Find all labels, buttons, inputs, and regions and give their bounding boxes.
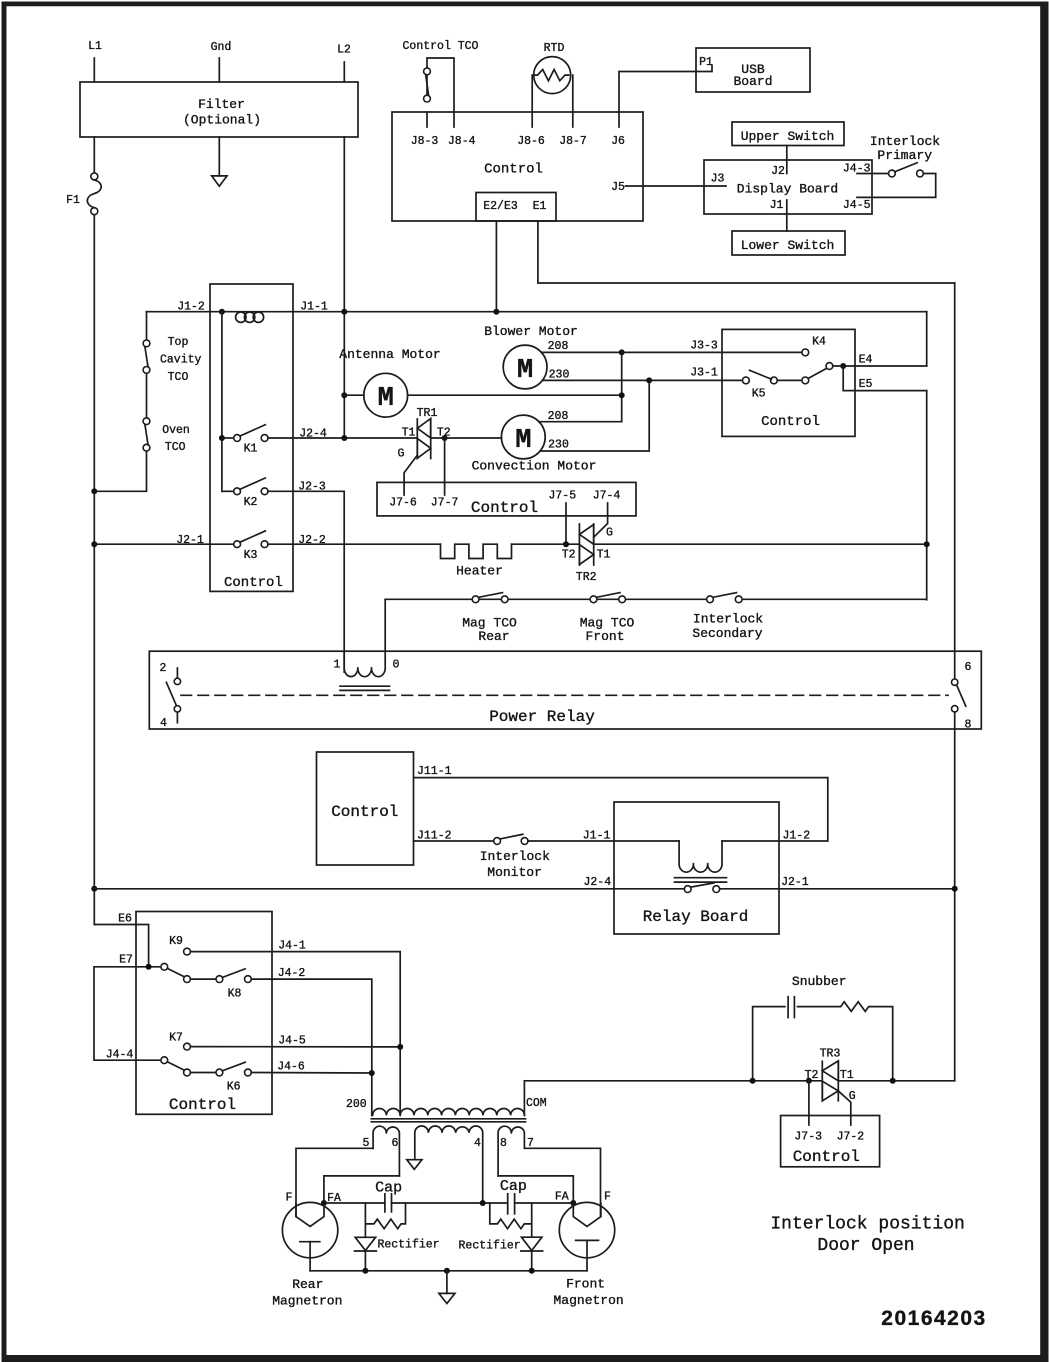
wire mag TCO rail xyxy=(385,598,927,600)
junction snubber right xyxy=(890,1078,896,1084)
svg-text:G: G xyxy=(606,527,613,540)
switch K5 xyxy=(743,363,833,401)
pin J8-7 xyxy=(559,112,587,148)
wire TR1 T2 to convection xyxy=(431,437,501,439)
junction 208col antenna xyxy=(619,392,625,398)
node J3-3 xyxy=(690,340,718,353)
svg-text:J1-1: J1-1 xyxy=(300,301,328,314)
node J2-1 relay board xyxy=(781,876,809,889)
svg-text:Oven: Oven xyxy=(162,424,190,437)
svg-text:TCO: TCO xyxy=(168,371,189,384)
svg-text:Primary: Primary xyxy=(877,148,932,163)
junction TR1 T2 / J7-7 xyxy=(442,435,448,441)
svg-text:Display Board: Display Board xyxy=(737,182,838,197)
wire blower 208 to J3-3 junction xyxy=(541,351,621,353)
switch K1 xyxy=(222,425,268,456)
wire pin7 to front F xyxy=(524,1148,600,1216)
svg-text:F1: F1 xyxy=(66,194,80,207)
wire J7-7 to control xyxy=(444,438,446,495)
snubber network xyxy=(753,974,893,1081)
svg-text:4: 4 xyxy=(160,717,167,730)
wire right rail (E1 corner to relay pin6) xyxy=(954,283,956,679)
svg-text:J2: J2 xyxy=(771,165,785,178)
svg-text:Upper Switch: Upper Switch xyxy=(741,129,835,144)
svg-text:4: 4 xyxy=(474,1137,481,1150)
svg-text:Power Relay: Power Relay xyxy=(489,708,595,726)
svg-text:K7: K7 xyxy=(169,1032,183,1045)
switch K8 xyxy=(161,963,251,1000)
svg-text:Front: Front xyxy=(566,1277,605,1292)
svg-text:J7-4: J7-4 xyxy=(593,490,621,503)
Upper Switch box xyxy=(732,122,844,146)
wire between TCOs xyxy=(146,373,148,418)
svg-text:J7-7: J7-7 xyxy=(431,497,459,510)
wire E5 xyxy=(843,366,927,391)
svg-text:Interlock: Interlock xyxy=(870,134,940,149)
node J1-2 xyxy=(177,301,205,314)
wire J2-4 long line xyxy=(94,888,684,890)
relay switch blade 2-4 xyxy=(166,682,176,706)
triac TR1 xyxy=(402,407,451,459)
control board box U1 xyxy=(392,112,643,221)
node J1-1 relay board xyxy=(583,830,611,843)
wire TR2 T1 to E5 junction xyxy=(594,543,927,545)
node L1 xyxy=(88,40,102,53)
svg-text:K9: K9 xyxy=(169,935,183,948)
pin J4-3 xyxy=(843,163,889,176)
label 230 blower xyxy=(549,369,570,382)
svg-text:E5: E5 xyxy=(859,378,873,391)
svg-text:P1: P1 xyxy=(699,56,713,69)
wire J4-6 xyxy=(251,1061,371,1074)
drawing number 20164203 xyxy=(881,1307,986,1330)
svg-text:J4-3: J4-3 xyxy=(843,163,871,176)
transformer secondary 5-6 xyxy=(363,1126,400,1176)
svg-text:Door Open: Door Open xyxy=(817,1236,914,1256)
wire FA rail xyxy=(324,1202,573,1204)
pin J4-5 wire xyxy=(843,174,936,213)
pin J8-4 xyxy=(448,112,476,148)
node J2-2 xyxy=(298,534,326,547)
svg-text:K6: K6 xyxy=(227,1081,241,1094)
rear magnetron xyxy=(272,1192,342,1309)
transformer filament winding xyxy=(415,1126,483,1203)
wire L1 main left rail (F1 down to E6 corner) xyxy=(93,215,95,925)
wire L1 to Filter xyxy=(93,58,95,82)
wire J1-2/J1-1 rail xyxy=(147,311,927,313)
wire Gnd to Filter xyxy=(218,58,220,82)
svg-text:Cap: Cap xyxy=(500,1178,527,1195)
wire E1 down and right to right rail xyxy=(538,221,955,283)
node L2 xyxy=(337,44,351,57)
svg-text:K8: K8 xyxy=(228,988,242,1001)
wire pin8 to front FA xyxy=(498,1176,573,1203)
Display Board box xyxy=(704,160,872,214)
junction left rail/J2-1 xyxy=(91,541,97,547)
wire J4-5 xyxy=(190,1035,400,1048)
relay switch blade 6-8 xyxy=(957,685,966,706)
left rectifier diode xyxy=(355,1224,440,1271)
svg-text:E4: E4 xyxy=(859,354,873,367)
relay board contact xyxy=(684,883,719,893)
svg-text:Control: Control xyxy=(484,162,543,178)
svg-text:E2/E3: E2/E3 xyxy=(483,200,518,213)
wire J1-2 down to Top Cavity TCO xyxy=(146,312,148,340)
svg-text:Magnetron: Magnetron xyxy=(272,1294,342,1309)
junction J7-5/J2-2 xyxy=(563,541,569,547)
switch K6 xyxy=(161,1057,251,1094)
svg-text:TR1: TR1 xyxy=(417,407,438,420)
svg-text:J7-2: J7-2 xyxy=(837,1131,865,1144)
svg-text:Interlock: Interlock xyxy=(480,849,550,864)
svg-text:8: 8 xyxy=(500,1137,507,1150)
svg-text:J4-2: J4-2 xyxy=(278,967,306,980)
node J2-3 xyxy=(298,481,326,494)
Oven TCO xyxy=(143,418,190,454)
svg-text:8: 8 xyxy=(965,719,972,732)
svg-text:Rear: Rear xyxy=(292,1277,323,1292)
wire 230 column xyxy=(540,380,649,451)
svg-text:K2: K2 xyxy=(244,496,258,509)
wire antenna right lead to 208 column xyxy=(408,394,622,396)
pin J5 wire to display board J3 xyxy=(611,181,726,194)
svg-text:J3-3: J3-3 xyxy=(690,340,718,353)
svg-text:COM: COM xyxy=(526,1097,547,1110)
Lower Switch box xyxy=(732,231,845,255)
junction J4-6/J4-2 column xyxy=(369,1070,375,1076)
capacitor left Cap xyxy=(375,1180,402,1212)
label 208 convection xyxy=(548,410,569,423)
svg-text:K5: K5 xyxy=(752,388,766,401)
relay coil on J1 rail xyxy=(236,312,264,322)
wire 208 column xyxy=(539,352,622,421)
wire magnetron cathode rail xyxy=(310,1270,587,1272)
pin J6 xyxy=(611,112,625,148)
svg-text:E1: E1 xyxy=(533,200,547,213)
svg-text:M: M xyxy=(378,384,394,414)
wire monitor to relay board J1-1 xyxy=(528,840,679,842)
wire J11-2 to interlock monitor xyxy=(414,840,494,842)
relay board coil xyxy=(675,841,727,882)
wire K3 to heater (J2-2) xyxy=(268,543,441,545)
svg-text:Rectifier: Rectifier xyxy=(459,1240,521,1253)
svg-text:1: 1 xyxy=(334,659,341,672)
wire TR1 gate to J7-6 xyxy=(398,448,418,496)
wire heater to TR2 T2 xyxy=(512,543,580,545)
junction J2-1/right rail xyxy=(952,886,958,892)
svg-text:J6: J6 xyxy=(611,135,625,148)
svg-text:E7: E7 xyxy=(119,954,133,967)
svg-text:J4-1: J4-1 xyxy=(278,940,306,953)
svg-text:Rear: Rear xyxy=(478,629,509,644)
wire relay pin8 down right rail xyxy=(954,712,956,1081)
power relay coil pin 0 xyxy=(393,659,400,672)
wire J4-1 xyxy=(190,940,400,1116)
svg-text:J4-6: J4-6 xyxy=(277,1061,305,1074)
pin J11-2 xyxy=(417,830,452,843)
pin J7-7 xyxy=(431,497,459,510)
switch interlock monitor xyxy=(480,834,550,880)
wire J2-1 from relay board to right rail xyxy=(720,888,955,890)
svg-text:Gnd: Gnd xyxy=(211,41,232,54)
svg-text:K1: K1 xyxy=(244,443,258,456)
svg-text:J7-6: J7-6 xyxy=(389,497,417,510)
svg-text:E6: E6 xyxy=(118,913,132,926)
node E4 xyxy=(859,354,873,367)
relay pin 6 xyxy=(952,661,972,685)
svg-text:2: 2 xyxy=(160,662,167,675)
svg-text:J1: J1 xyxy=(770,199,784,212)
power relay box xyxy=(149,651,981,729)
svg-text:6: 6 xyxy=(392,1137,399,1150)
transformer secondary 8-7 xyxy=(498,1126,534,1176)
svg-text:Cavity: Cavity xyxy=(160,354,202,367)
wire K2 to power relay coil pin1 xyxy=(268,491,344,672)
node Gnd xyxy=(211,41,232,54)
contact K4 xyxy=(802,336,826,356)
ground symbol transformer xyxy=(407,1160,422,1170)
wire J6 to USB board xyxy=(619,66,712,112)
junction rail/left rectifier xyxy=(362,1268,368,1274)
pin J3 xyxy=(711,173,725,186)
svg-text:J1-2: J1-2 xyxy=(782,830,810,843)
junction FA/pin6 xyxy=(321,1200,327,1206)
svg-text:K3: K3 xyxy=(244,549,258,562)
relay pin 2 xyxy=(160,662,181,685)
Filter box (Optional) xyxy=(80,82,358,137)
control TCO switch xyxy=(403,40,479,112)
switch K3 xyxy=(234,531,268,562)
wire L2 to Filter xyxy=(343,62,345,82)
svg-text:TR2: TR2 xyxy=(576,571,597,584)
wire J3-1 to K5 xyxy=(649,379,742,381)
pin J8-6 xyxy=(517,112,545,148)
pin J11-1 xyxy=(417,765,452,778)
svg-text:J2-4: J2-4 xyxy=(583,876,611,889)
node J2-1 xyxy=(176,534,204,547)
pin J8-3 xyxy=(411,112,439,148)
junction E5/J2-2 xyxy=(924,541,930,547)
svg-text:RTD: RTD xyxy=(544,42,565,55)
switch Interlock Secondary xyxy=(692,593,763,641)
control box J7 bottom xyxy=(781,1116,880,1167)
svg-text:J3-1: J3-1 xyxy=(690,367,718,380)
control box J7 xyxy=(377,482,636,517)
svg-text:208: 208 xyxy=(548,410,569,423)
svg-text:J7-5: J7-5 xyxy=(548,490,576,503)
svg-text:Secondary: Secondary xyxy=(692,626,762,641)
svg-text:Lower Switch: Lower Switch xyxy=(741,238,835,253)
junction E4 split xyxy=(840,363,846,369)
junction 208col top xyxy=(619,349,625,355)
svg-text:J1-1: J1-1 xyxy=(583,830,611,843)
svg-text:FA: FA xyxy=(327,1192,341,1205)
pin J7-6 xyxy=(389,497,417,510)
svg-text:J2-1: J2-1 xyxy=(781,876,809,889)
fuse F1 xyxy=(66,173,101,215)
junction rail/K coil feed xyxy=(219,309,225,315)
interlock primary switch xyxy=(889,163,924,177)
switch Mag TCO Rear xyxy=(462,593,517,644)
power relay coil xyxy=(340,599,390,690)
heater element xyxy=(441,544,512,578)
junction left rail / J2-4 xyxy=(91,886,97,892)
svg-text:Control TCO: Control TCO xyxy=(403,40,479,53)
wire TCO chain to left rail xyxy=(94,451,146,491)
svg-text:J8-6: J8-6 xyxy=(517,135,545,148)
switch Mag TCO Front xyxy=(580,593,635,644)
Top Cavity TCO xyxy=(143,336,201,384)
left bleeder resistor xyxy=(365,1203,405,1229)
junction rail/E2E3 xyxy=(493,309,499,315)
wire J4-2 xyxy=(251,967,371,1115)
power relay dashed line xyxy=(181,694,948,696)
svg-text:FA: FA xyxy=(555,1191,569,1204)
relay board box xyxy=(614,802,779,934)
svg-text:208: 208 xyxy=(548,340,569,353)
triac TR3 xyxy=(805,1048,856,1104)
USB board box xyxy=(696,48,810,92)
svg-text:20164203: 20164203 xyxy=(881,1307,986,1330)
svg-text:J7-3: J7-3 xyxy=(794,1131,822,1144)
svg-text:Relay Board: Relay Board xyxy=(643,908,749,926)
ground symbol under Filter xyxy=(212,176,227,186)
ground symbol bottom xyxy=(439,1271,455,1304)
wire J1 to Lower Switch xyxy=(786,200,788,231)
junction rail/L2 xyxy=(341,309,347,315)
wire K5 to E4 xyxy=(833,365,927,367)
svg-text:6: 6 xyxy=(965,661,972,674)
pin J7-4 xyxy=(593,490,621,538)
svg-text:J8-4: J8-4 xyxy=(448,135,476,148)
interlock primary label xyxy=(870,134,940,163)
pin J7-2 xyxy=(837,1131,865,1144)
junction snubber left xyxy=(750,1078,756,1084)
junction TR3 T2 / J7-3 xyxy=(806,1078,812,1084)
junction pivot/K1 xyxy=(219,435,225,441)
svg-text:TCO: TCO xyxy=(165,441,186,454)
junction J2-4/L2 xyxy=(341,435,347,441)
svg-text:J1-2: J1-2 xyxy=(177,301,205,314)
relay pin 4 xyxy=(160,706,181,730)
svg-text:F: F xyxy=(286,1192,293,1205)
wire J2-1 to K3 xyxy=(94,543,233,545)
svg-text:Interlock: Interlock xyxy=(693,612,763,627)
svg-text:M: M xyxy=(515,426,531,456)
svg-text:TR3: TR3 xyxy=(820,1048,841,1061)
wire Filter to ground xyxy=(218,137,220,176)
svg-text:J5: J5 xyxy=(611,181,625,194)
svg-text:J8-3: J8-3 xyxy=(411,135,439,148)
control box K6-K9 xyxy=(136,912,272,1115)
svg-text:Antenna Motor: Antenna Motor xyxy=(339,347,440,362)
pin J1 xyxy=(770,199,784,212)
junction L2/antenna xyxy=(341,392,347,398)
junction 230col xyxy=(646,377,652,383)
relay pin 8 xyxy=(952,706,972,732)
node J1-2 relay board xyxy=(782,830,810,843)
node J1-1 xyxy=(300,301,328,314)
switch K2 xyxy=(222,478,268,509)
svg-text:F: F xyxy=(604,1191,611,1204)
wire K pivot column xyxy=(221,312,223,492)
svg-text:J4-5: J4-5 xyxy=(278,1035,306,1048)
svg-text:Board: Board xyxy=(733,74,772,89)
svg-text:J4-4: J4-4 xyxy=(106,1049,134,1062)
svg-text:Snubber: Snubber xyxy=(792,974,847,989)
svg-text:Control: Control xyxy=(331,803,398,821)
triac TR2 xyxy=(562,524,613,584)
blower motor B1 xyxy=(484,324,578,389)
wire E6 xyxy=(94,913,148,964)
capacitor right Cap xyxy=(500,1178,527,1214)
svg-text:Heater: Heater xyxy=(456,564,503,579)
svg-text:J3: J3 xyxy=(711,173,725,186)
junction rail/right rectifier xyxy=(529,1268,535,1274)
wire Filter to F1 xyxy=(93,137,95,173)
contact K9 xyxy=(169,935,190,955)
wire blower 230 to J3-1 junction xyxy=(542,379,649,381)
node J2-4 relay board xyxy=(583,876,611,889)
svg-text:(Optional): (Optional) xyxy=(183,113,261,128)
svg-text:T1: T1 xyxy=(597,549,611,562)
control box J11 xyxy=(317,752,414,865)
svg-text:Front: Front xyxy=(585,629,624,644)
svg-text:Control: Control xyxy=(471,499,538,517)
svg-text:Control: Control xyxy=(224,575,283,591)
RTD xyxy=(532,42,573,112)
svg-text:J11-1: J11-1 xyxy=(417,765,452,778)
pin J7-3 xyxy=(794,1131,822,1144)
wire E7 / J4-4 left loop xyxy=(94,967,161,1060)
svg-text:200: 200 xyxy=(346,1098,367,1111)
svg-text:Monitor: Monitor xyxy=(487,865,542,880)
right rectifier diode xyxy=(459,1224,543,1271)
control box K4/K5 xyxy=(722,329,855,436)
node J4-4 xyxy=(106,1049,134,1062)
node J3-1 xyxy=(690,367,718,380)
note interlock position xyxy=(770,1215,964,1257)
wire pin5 to rear F xyxy=(296,1148,373,1216)
svg-text:L2: L2 xyxy=(337,44,351,57)
contact K7 xyxy=(169,1032,190,1051)
wire Upper Switch to J2 xyxy=(786,146,788,174)
svg-text:L1: L1 xyxy=(88,40,102,53)
svg-text:Convection Motor: Convection Motor xyxy=(472,459,597,474)
junction left rail/TCO xyxy=(91,488,97,494)
pin J2 xyxy=(771,165,785,178)
wire COM riser xyxy=(524,1081,546,1116)
svg-text:Rectifier: Rectifier xyxy=(377,1239,439,1252)
svg-text:J8-7: J8-7 xyxy=(559,135,587,148)
convection motor xyxy=(472,415,597,473)
wire COM/TR3 rail to right rail xyxy=(524,1080,954,1082)
svg-text:M: M xyxy=(517,356,533,386)
svg-text:230: 230 xyxy=(548,439,569,452)
pin J7-5 xyxy=(548,490,576,545)
label 208 blower xyxy=(548,340,569,353)
node E7 xyxy=(119,954,133,967)
wire L2 down to J1-1 rail xyxy=(343,137,345,438)
right bleeder resistor xyxy=(490,1203,532,1229)
wire J11-1 to J1-2 xyxy=(414,778,828,841)
wire pin6 to rear FA xyxy=(324,1176,400,1203)
node E5 xyxy=(859,378,873,391)
svg-text:J4-5: J4-5 xyxy=(843,199,871,212)
svg-text:T1: T1 xyxy=(402,427,416,440)
front magnetron xyxy=(553,1191,623,1309)
svg-text:Interlock position: Interlock position xyxy=(770,1215,964,1235)
